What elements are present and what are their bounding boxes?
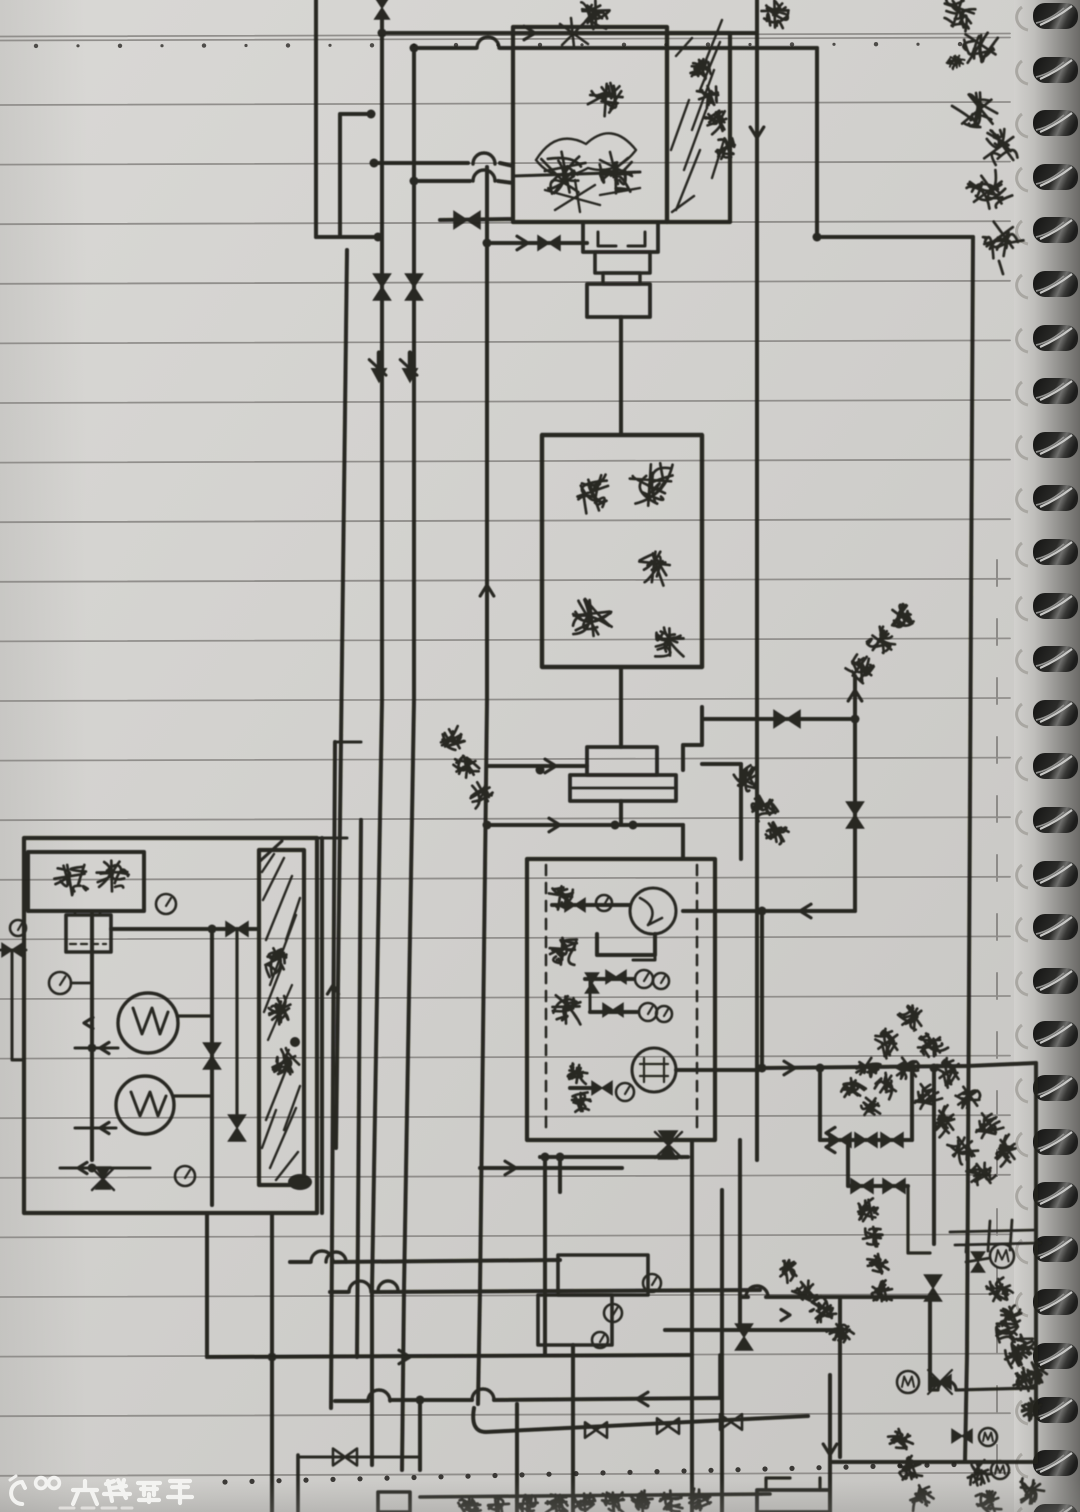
start box — [28, 852, 144, 911]
wire bottom long — [420, 1494, 770, 1497]
flow arrow bli — [78, 1162, 87, 1173]
valve V5 exciter — [538, 236, 560, 250]
small box bottom — [378, 1492, 410, 1512]
lube box1 — [558, 1255, 648, 1295]
wire g11 — [71, 982, 92, 985]
wire motor inside — [513, 172, 640, 176]
oil row3 frame — [590, 934, 655, 1012]
small tank box — [66, 915, 111, 952]
coupling brackets — [598, 232, 645, 246]
valve V25 — [226, 922, 248, 936]
wire right cross — [817, 235, 973, 239]
motor M4 — [979, 1428, 997, 1446]
cooler box HX1 — [667, 33, 730, 222]
wire shaft lower — [619, 667, 623, 747]
label pipe2 — [871, 1025, 904, 1059]
gauge G5 — [656, 1006, 672, 1022]
gauge G8 — [604, 1304, 622, 1322]
valve V23 — [952, 1430, 972, 1443]
flow arrow header — [784, 1061, 795, 1075]
flow arrow op2 — [100, 1122, 109, 1133]
label start c2 — [97, 861, 129, 892]
coupling box2 — [595, 252, 650, 273]
small tank dash — [70, 943, 106, 945]
gauge G6 — [616, 1083, 634, 1101]
pump frame — [597, 934, 655, 955]
wire jog B — [340, 114, 371, 237]
wire vertical main G — [967, 237, 973, 1355]
label dian top — [581, 0, 609, 29]
gauge G7 — [643, 1274, 661, 1292]
wire into motor lower — [414, 181, 513, 183]
wire left mid — [111, 927, 259, 931]
wire gland lower — [487, 823, 683, 827]
wire under tank 1 — [540, 1155, 688, 1159]
wire bl v — [270, 1213, 274, 1512]
label start c1 — [53, 862, 89, 897]
flow arrow gland — [545, 759, 556, 773]
oil pump OP2 — [116, 1076, 174, 1134]
bottom small box — [757, 1490, 830, 1512]
wire drain bottom — [683, 909, 855, 913]
motor blob scribble — [536, 133, 640, 212]
flow arrow gland2 — [549, 818, 560, 832]
motor M2 — [990, 1244, 1014, 1268]
label topright c2 — [953, 22, 1004, 73]
label jin — [1017, 1478, 1045, 1506]
label dian right — [762, 0, 789, 28]
wire vertical main A — [314, 0, 318, 237]
wire cooler top jog — [259, 841, 282, 862]
valve V16 — [855, 1133, 877, 1147]
left system box — [24, 838, 317, 1213]
label pump note — [774, 1256, 802, 1284]
bottom shadow band — [0, 0, 1, 1]
valve V9 — [586, 973, 599, 993]
wire header drop1 — [818, 1068, 822, 1140]
wire right box left — [965, 1355, 967, 1462]
wire exciter feed — [487, 241, 587, 245]
coupling box1 — [583, 222, 658, 252]
wire drain riser — [853, 676, 857, 911]
wire bl5 row — [473, 1408, 808, 1432]
label tank c1 — [546, 884, 573, 911]
gauge G11 — [49, 972, 71, 994]
valve V2 — [374, 274, 391, 300]
valve V8 — [565, 899, 585, 912]
oil cooler hatch mid — [268, 985, 292, 1040]
pump P1 line — [552, 903, 630, 907]
gauge G9 — [592, 1332, 608, 1348]
wire vertical main F — [755, 0, 759, 1160]
valve V20 — [972, 1252, 985, 1272]
flow arrow exciter — [517, 236, 528, 250]
wire vertical main E — [478, 167, 487, 1404]
wire under tank 2 — [480, 1166, 622, 1170]
oil cooler hatch bot — [262, 1060, 300, 1180]
flow arrow ut — [505, 1161, 516, 1175]
wire main header — [762, 1066, 967, 1068]
turbine box T1 — [542, 435, 702, 667]
wire left sys top feed — [335, 741, 361, 744]
motor M3 — [897, 1371, 919, 1393]
label turbine c3 — [636, 549, 671, 586]
wire bottom curve — [930, 1381, 1035, 1390]
label topright c1 — [937, 0, 978, 32]
valve V17 — [881, 1133, 903, 1147]
label turbine c4 — [570, 597, 613, 638]
right box bottom v — [1034, 1063, 1038, 1462]
wire left drop1 — [90, 911, 94, 1160]
gauge G2 — [635, 970, 653, 988]
wire into motor upper — [374, 163, 513, 166]
oil cooler blob — [288, 1174, 312, 1190]
wire jog A — [316, 235, 378, 239]
gauge G4 — [639, 1003, 657, 1021]
wire center drop c — [738, 1140, 742, 1330]
label dong — [587, 81, 624, 117]
wire op2 out — [75, 1127, 116, 1130]
wire shaft upper — [619, 317, 623, 435]
label valve note — [856, 1198, 879, 1222]
label turbine c2 — [628, 461, 674, 508]
label tank c2 — [548, 937, 577, 966]
valve V30 — [657, 1418, 679, 1433]
wire bl valve run — [300, 1456, 420, 1459]
label turbine c5 — [655, 628, 683, 657]
oil row4 line — [570, 1086, 592, 1090]
valve V7 riser — [847, 802, 864, 828]
wire op1 out — [75, 1047, 118, 1050]
valve V3 — [406, 274, 423, 300]
label hp line — [993, 1317, 1020, 1343]
oil row3 line — [590, 1010, 637, 1014]
small tank legs — [75, 911, 100, 915]
wire left drop2 — [210, 929, 214, 1205]
wire drop to header — [760, 911, 764, 1068]
oil tank dashed R — [696, 865, 699, 1135]
gauge G12 — [175, 1166, 195, 1186]
label bottom right2 — [964, 1460, 993, 1488]
wire cooler right2 — [331, 742, 335, 1408]
label topright c3 — [950, 84, 1004, 138]
pump P1 circle — [630, 888, 676, 934]
gauge G10 — [156, 894, 176, 914]
right box bottom h — [830, 1460, 1036, 1464]
left edge wire — [12, 950, 24, 1060]
wire row2 jog — [848, 1140, 908, 1186]
wire m2 stub — [966, 1258, 990, 1262]
flow arrow bl4 — [637, 1392, 648, 1406]
wire vertical main C — [372, 14, 382, 1465]
valve V12 — [592, 1082, 612, 1095]
label tank c3 — [553, 995, 581, 1024]
wire right drop — [815, 48, 819, 237]
valve V1 top — [375, 0, 389, 19]
wire valve row1 — [820, 1138, 912, 1142]
flow arrow down F — [750, 127, 764, 138]
wire gland right drop — [681, 825, 685, 859]
label ji scribble — [541, 148, 591, 198]
wire bl h3 — [330, 1290, 760, 1292]
wire bl6 stub — [296, 1455, 300, 1512]
flow arrow up E — [480, 585, 494, 596]
wire header drop3 — [932, 1068, 936, 1244]
bearing box2 — [570, 775, 676, 801]
lube box2 — [538, 1295, 612, 1345]
valve V19 — [883, 1179, 905, 1193]
wire tank inlet right — [702, 764, 741, 859]
gauge G3 — [653, 973, 669, 989]
flow arrow down D — [408, 353, 413, 375]
wire center drop a — [690, 1140, 694, 1512]
bearing split — [570, 787, 676, 790]
flow arrow bw1 — [781, 1309, 790, 1320]
wire under tank drop1 — [543, 1157, 547, 1355]
flow arrow right top — [524, 26, 535, 40]
flow arrow bw2 — [812, 1296, 821, 1307]
valve V31 — [720, 1414, 742, 1429]
gauge G1 — [596, 895, 612, 911]
wire MT out — [676, 1068, 762, 1072]
wire bottom h2 — [740, 1295, 930, 1299]
label topright c4 — [973, 122, 1024, 173]
valve V11 — [603, 1004, 623, 1017]
wire bl h — [207, 1355, 690, 1357]
motor M5 — [991, 1461, 1009, 1479]
scribble cross X1 — [560, 18, 588, 47]
label drain chars — [845, 651, 879, 684]
valve V14 — [736, 1324, 753, 1350]
wire bl h2 — [290, 1260, 560, 1262]
flow arrow cr2 — [327, 985, 338, 994]
valve V28 blob — [96, 1167, 110, 1189]
left edge valve — [2, 944, 22, 957]
valve V21 — [925, 1275, 942, 1301]
hop pair — [326, 1252, 346, 1262]
coupling box3 — [603, 273, 640, 284]
flow arrow down C — [377, 353, 382, 375]
pipe joint sym — [950, 1220, 1040, 1252]
valve V24 — [333, 1449, 357, 1466]
oil tank dashed L — [545, 865, 548, 1135]
wire gland right up — [683, 707, 702, 770]
oil tank box — [527, 859, 715, 1140]
valve V26 — [204, 1043, 221, 1069]
oil pump OP1 — [118, 993, 178, 1053]
wire bl riser — [205, 1213, 209, 1357]
flow arrows row1 — [826, 1127, 835, 1138]
valve V18 — [851, 1179, 873, 1193]
wire shaft stub — [619, 801, 623, 825]
wire pump2 out — [174, 1094, 212, 1097]
wire bottom mid v — [838, 1297, 842, 1457]
oil cooler box — [259, 850, 304, 1185]
label xunhuan1 — [838, 1076, 866, 1104]
wire bl v5 — [515, 1404, 519, 1512]
wire bl v4 — [418, 1404, 422, 1470]
wire center drop b — [720, 1190, 724, 1512]
label turbine c1 — [573, 474, 615, 516]
wire left box top ext — [317, 837, 347, 840]
flow arrow bl — [399, 1350, 410, 1364]
flow arrow op1 — [100, 1042, 109, 1053]
valve V13 fat — [659, 1131, 677, 1159]
wire cooler right1 — [320, 838, 324, 1213]
wire bottom left inner — [60, 1167, 150, 1170]
label topright c5 — [963, 166, 1013, 216]
wire row2 drop — [908, 1186, 930, 1253]
motor MT circle — [632, 1048, 676, 1092]
wire vertical main D — [402, 48, 414, 1470]
valve V15 — [829, 1133, 851, 1147]
spiral binding rings — [1017, 3, 1078, 30]
valve V27 — [229, 1115, 246, 1141]
wire top supply — [382, 31, 757, 35]
label bottom chars — [458, 1497, 481, 1512]
wire gland feed upper — [487, 764, 587, 768]
label oil cooler — [259, 944, 292, 977]
wire vertical main B — [336, 250, 347, 1148]
wire lube down — [571, 1345, 575, 1512]
wire bottom mid h — [665, 1328, 840, 1332]
wire bl4 corner — [718, 1355, 722, 1398]
wire v361 — [357, 820, 361, 1357]
wire header drop2 — [910, 1068, 914, 1140]
label oil pressure — [567, 1063, 589, 1084]
valve V29 — [585, 1422, 607, 1437]
flow arrow brv — [823, 1444, 837, 1455]
wire top second — [414, 46, 817, 50]
flow arrow drain up — [848, 690, 862, 701]
label gland water R — [733, 764, 764, 795]
wire bl h4 — [335, 1398, 720, 1401]
coupling box4 — [587, 284, 650, 317]
left edge gauge — [10, 920, 26, 936]
label topright c6 — [976, 214, 1024, 262]
wire v27 stub — [235, 929, 238, 1120]
label xunhuan2 — [857, 1094, 885, 1122]
label bottom right1 — [886, 1426, 914, 1454]
flow arrow drain left — [800, 904, 811, 918]
bearing box1 — [587, 747, 657, 775]
oil row2 line — [585, 977, 633, 981]
scribble arrows inside motor — [600, 152, 632, 184]
valve V4 left of motor — [454, 212, 480, 229]
label cooler chars — [688, 57, 714, 83]
label pipe1 — [895, 1001, 928, 1034]
label topright c2b — [945, 52, 965, 72]
wire pump1 out — [178, 1014, 212, 1017]
valve V6 drain — [774, 711, 800, 728]
oil cooler hatch top — [262, 854, 300, 1012]
label hp cyl — [985, 1275, 1014, 1305]
label gland water L — [437, 725, 467, 755]
label topright mark — [999, 261, 1003, 274]
wire bottom v3 — [928, 1297, 932, 1390]
valve V10 — [606, 971, 626, 984]
wire bottom right v — [828, 1375, 832, 1512]
valve V22 — [929, 1375, 951, 1389]
watermark logo — [10, 1476, 192, 1508]
cooler hatch — [671, 20, 724, 212]
motor box M1 — [513, 27, 667, 222]
wire drain valve run — [702, 717, 855, 721]
wire under tank drop2 — [558, 1157, 562, 1192]
